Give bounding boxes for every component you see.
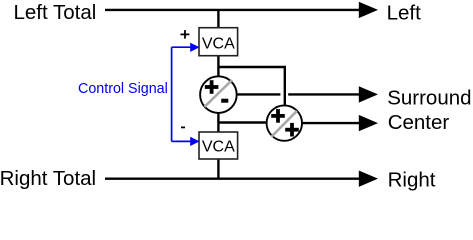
svg-text:VCA: VCA	[202, 35, 235, 52]
svg-text:VCA: VCA	[202, 139, 235, 156]
svg-text:Control Signal: Control Signal	[78, 81, 168, 97]
svg-text:Right: Right	[388, 169, 436, 192]
svg-text:Left: Left	[387, 2, 421, 25]
svg-text:Right Total: Right Total	[0, 167, 96, 190]
svg-text:Surround: Surround	[387, 86, 471, 109]
svg-text:Center: Center	[388, 111, 450, 134]
svg-text:Left Total: Left Total	[14, 1, 97, 24]
